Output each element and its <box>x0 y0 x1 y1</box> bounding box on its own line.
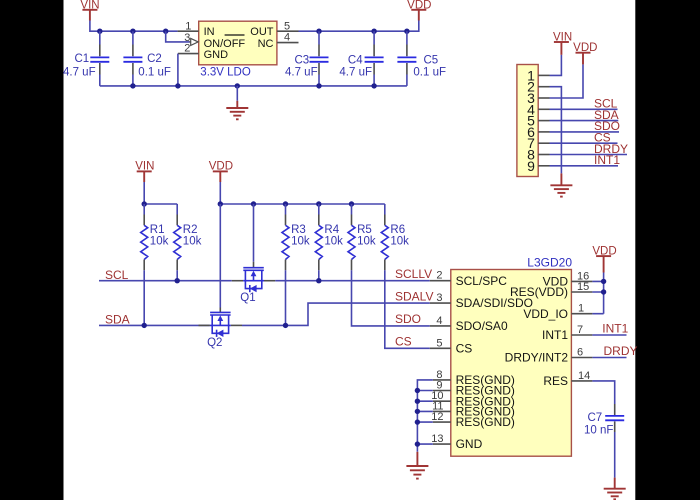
wire pin4 SCL <box>550 108 618 110</box>
node junction C3 bottom <box>316 83 321 88</box>
node junction Q1 gate <box>251 201 256 206</box>
wire R1 bottom to SDA <box>143 270 145 325</box>
node junction R3 top <box>283 201 288 206</box>
pin 1 VDD_IO <box>571 303 592 315</box>
node junction ground stem <box>235 83 240 88</box>
svg-text:4.7 uF: 4.7 uF <box>339 66 372 78</box>
node junction R5 top <box>349 201 354 206</box>
svg-text:10k: 10k <box>291 235 310 247</box>
pin 2 SCL/SPC <box>430 270 451 282</box>
wire DRDY <box>592 357 626 359</box>
supply VIN (connector) <box>553 31 572 55</box>
wire RES(GND) bus to ground <box>417 380 432 452</box>
pin 14 RES <box>571 370 592 382</box>
svg-text:DRDY: DRDY <box>604 344 638 358</box>
op-amp U1 3.3V LDO regulator <box>199 21 277 78</box>
svg-text:VDD_IO: VDD_IO <box>523 307 568 321</box>
wire ground stem <box>236 86 238 101</box>
wire pin8 DRDY <box>550 154 628 156</box>
wire R6 bottom to CS pin <box>385 270 430 348</box>
svg-text:C7: C7 <box>588 412 603 424</box>
svg-text:0.1 uF: 0.1 uF <box>138 66 171 78</box>
wire VDD bus down to Q1 gate <box>253 204 255 268</box>
svg-text:12: 12 <box>431 411 443 423</box>
pin 5 OUT <box>277 20 299 32</box>
node junction C2 top <box>130 29 135 34</box>
svg-text:1: 1 <box>578 303 584 315</box>
wire R4 bottom to SCLLV <box>318 270 320 280</box>
svg-text:4: 4 <box>284 32 290 44</box>
svg-text:R1: R1 <box>150 224 165 236</box>
supply VDD (power section) <box>407 0 431 21</box>
node junction pin10 <box>415 399 420 404</box>
node junction R4 top <box>316 201 321 206</box>
svg-text:GND: GND <box>456 437 483 451</box>
wire R5 bottom to SDO pin <box>352 270 430 326</box>
svg-text:SCLLV: SCLLV <box>395 267 432 281</box>
svg-text:10k: 10k <box>390 235 409 247</box>
resistor R2 <box>174 204 202 270</box>
node junction C5 top <box>404 29 409 34</box>
supply VIN (pull-up section) <box>135 161 154 182</box>
node junction C1 top <box>97 29 102 34</box>
pin 6 <box>527 124 549 140</box>
svg-text:OUT: OUT <box>250 26 274 38</box>
svg-text:0.1 uF: 0.1 uF <box>413 66 446 78</box>
resistor R5 <box>348 204 376 270</box>
wire SDALV line with jog <box>242 303 430 325</box>
svg-text:3: 3 <box>436 292 442 304</box>
node junction C4 bottom <box>371 83 376 88</box>
svg-text:6: 6 <box>577 347 583 359</box>
pin 7 <box>527 135 549 151</box>
pin 15 RES(VDD) <box>571 281 592 293</box>
pin 2 <box>527 79 549 95</box>
svg-text:9: 9 <box>527 158 535 174</box>
svg-text:SCL/SPC: SCL/SPC <box>456 274 508 288</box>
svg-text:SDO/SA0: SDO/SA0 <box>456 319 508 333</box>
wire pin5 SDA <box>550 120 619 122</box>
svg-text:SDALV: SDALV <box>395 290 433 304</box>
svg-text:INT1: INT1 <box>594 153 620 167</box>
node junction ON/OFF tap <box>163 29 168 34</box>
svg-text:RES: RES <box>543 374 568 388</box>
svg-text:Q1: Q1 <box>240 292 255 304</box>
pin 11 RES(GND) <box>432 400 451 412</box>
svg-text:5: 5 <box>284 20 290 32</box>
wire pin2 to ground <box>550 87 562 174</box>
svg-text:R4: R4 <box>324 224 339 236</box>
supply VDD (connector) <box>573 42 597 64</box>
pin 4 SDO/SA0 <box>430 315 451 327</box>
transistor Q2 <box>199 312 243 349</box>
IC U2 L3GD20 gyro <box>451 255 573 456</box>
node junction pin9 <box>415 388 420 393</box>
node junction R1/SDA <box>142 323 147 328</box>
node junction pin13 <box>415 441 420 446</box>
node junction R2/SCL <box>175 278 180 283</box>
pin 3 SDA/SDI/SDO <box>430 292 451 304</box>
ground (power section) <box>226 101 248 120</box>
wire INT1 <box>592 334 626 336</box>
ground (C7) <box>604 478 626 500</box>
capacitor C2 <box>123 31 171 86</box>
capacitor C5 <box>397 31 446 86</box>
svg-text:C3: C3 <box>295 54 310 66</box>
svg-text:R3: R3 <box>291 224 306 236</box>
wire pin6 SDO <box>550 131 620 133</box>
node junction R4/SCLLV <box>316 278 321 283</box>
svg-text:RES(VDD): RES(VDD) <box>510 285 568 299</box>
node junction pin15 <box>601 289 606 294</box>
wire LDO GND pin to bottom bus <box>177 54 179 86</box>
node junction C3 top <box>316 29 321 34</box>
pin 4 NC stub <box>277 32 299 44</box>
svg-text:INT1: INT1 <box>602 322 628 336</box>
svg-text:3.3V LDO: 3.3V LDO <box>200 67 251 79</box>
svg-text:13: 13 <box>431 433 443 445</box>
svg-text:RES(GND): RES(GND) <box>456 415 515 429</box>
wire pin1 to VIN <box>550 55 562 76</box>
supply VDD (IC) <box>592 245 616 272</box>
pin 12 RES(GND) <box>431 411 451 423</box>
wire pin9 INT1 <box>550 165 619 167</box>
svg-text:4.7 uF: 4.7 uF <box>63 66 96 78</box>
svg-text:L3GD20: L3GD20 <box>527 255 572 269</box>
supply VIN (power section) <box>80 0 99 21</box>
pin 5 <box>527 113 549 129</box>
svg-text:CS: CS <box>456 341 473 355</box>
svg-text:4.7 uF: 4.7 uF <box>285 66 318 78</box>
wire pin7 CS <box>550 142 618 144</box>
wire R3 bottom to SDALV <box>285 270 287 325</box>
node junction LDO GND <box>175 83 180 88</box>
node junction pin11 <box>415 409 420 414</box>
svg-text:R5: R5 <box>357 224 372 236</box>
resistor R3 <box>282 204 310 270</box>
node junction R3/SDALV <box>283 323 288 328</box>
svg-text:Q2: Q2 <box>207 337 222 349</box>
wire SCLLV line <box>275 280 430 282</box>
svg-text:SCL: SCL <box>105 268 129 282</box>
svg-text:10k: 10k <box>324 235 343 247</box>
svg-text:C1: C1 <box>75 53 90 65</box>
wire VDD top bus <box>299 21 419 32</box>
transistor Q1 <box>232 268 275 305</box>
svg-text:5: 5 <box>436 337 442 349</box>
svg-text:4: 4 <box>436 315 442 327</box>
ground (IC) <box>406 452 428 479</box>
svg-text:10 nF: 10 nF <box>584 425 613 437</box>
svg-text:R2: R2 <box>183 224 198 236</box>
svg-text:R6: R6 <box>390 224 405 236</box>
svg-text:SDO: SDO <box>395 312 421 326</box>
node junction pin12 <box>415 419 420 424</box>
svg-text:IN: IN <box>204 26 215 38</box>
pin 1 IN <box>178 20 199 32</box>
pin 2 GND of LDO <box>178 43 199 55</box>
wire VIN down to R1/R2 bus <box>144 182 177 204</box>
pin 3 ON/OFF with clock arrow <box>184 32 198 46</box>
capacitor C3 <box>285 31 329 86</box>
pin 1 <box>527 67 549 83</box>
svg-text:ON/OFF: ON/OFF <box>204 38 246 50</box>
wire pin14 to C7 <box>592 381 614 404</box>
pin 9 <box>527 158 549 174</box>
wire VDD bus down to Q2 gate <box>219 204 221 312</box>
node junction C4 top <box>371 29 376 34</box>
supply VDD (pull-up section) <box>209 161 233 182</box>
pin 6 DRDY/INT2 <box>571 347 592 359</box>
svg-text:15: 15 <box>577 281 589 293</box>
node junction VDD/Q2 gate <box>218 201 223 206</box>
capacitor C1 <box>63 31 109 86</box>
svg-text:1: 1 <box>185 20 191 32</box>
resistor R1 <box>141 204 169 270</box>
svg-text:GND: GND <box>204 49 229 61</box>
pin 3 <box>527 90 549 106</box>
svg-text:C4: C4 <box>348 54 363 66</box>
pin 4 <box>527 101 549 117</box>
wire SDA line <box>99 324 210 326</box>
svg-text:10k: 10k <box>150 235 169 247</box>
resistor R6 <box>381 204 409 270</box>
svg-text:10k: 10k <box>183 235 202 247</box>
svg-text:C5: C5 <box>424 54 439 66</box>
resistor R4 <box>315 204 343 270</box>
wire SCL line <box>99 280 232 282</box>
svg-text:14: 14 <box>578 370 590 382</box>
svg-text:INT1: INT1 <box>542 328 568 342</box>
wire to LDO ON/OFF pin 3 <box>166 31 190 42</box>
pin 16 VDD <box>571 270 592 282</box>
svg-text:DRDY/INT2: DRDY/INT2 <box>505 351 569 365</box>
svg-text:2: 2 <box>436 270 442 282</box>
pin 9 RES(GND) <box>433 380 451 392</box>
svg-text:C2: C2 <box>147 53 162 65</box>
svg-text:10k: 10k <box>357 235 376 247</box>
capacitor C7 <box>584 404 624 478</box>
wire VDD pull-up bus <box>220 182 384 204</box>
wire VDD to pins 16/15/1 <box>592 273 603 314</box>
svg-text:CS: CS <box>395 335 412 349</box>
wire bottom ground bus <box>100 85 407 87</box>
svg-text:7: 7 <box>577 324 583 336</box>
pin 5 CS <box>430 337 451 349</box>
pin 8 <box>527 147 549 163</box>
pin 13 GND <box>431 433 451 445</box>
wire VIN to top bus <box>90 21 178 32</box>
node junction R1 top <box>142 201 147 206</box>
svg-text:2: 2 <box>184 43 190 55</box>
ground (connector) <box>550 173 572 196</box>
node junction C2 bottom <box>130 83 135 88</box>
svg-text:NC: NC <box>258 38 274 50</box>
wire R2 bottom to SCL <box>176 270 178 280</box>
connector J1 9-pin header <box>517 65 538 177</box>
wire pin3 to VDD <box>550 64 584 98</box>
pin 8 RES(GND) <box>433 369 451 381</box>
capacitor C4 <box>339 31 383 86</box>
node junction pin16 <box>601 279 606 284</box>
pin 7 INT1 <box>571 324 592 336</box>
pin 10 RES(GND) <box>431 390 451 402</box>
